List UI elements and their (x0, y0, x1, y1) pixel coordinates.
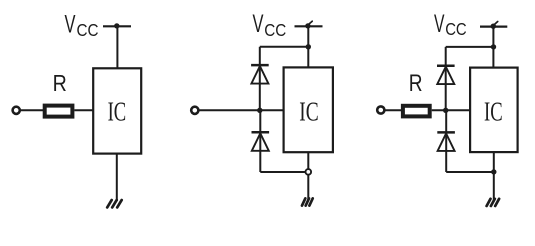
svg-text:V: V (65, 11, 76, 39)
svg-text:CC: CC (445, 19, 467, 39)
svg-text:V: V (434, 10, 445, 38)
svg-text:V: V (253, 10, 264, 38)
svg-text:R: R (53, 70, 67, 96)
svg-text:IC: IC (108, 97, 127, 127)
svg-text:CC: CC (264, 20, 286, 40)
svg-text:IC: IC (484, 97, 503, 127)
svg-text:CC: CC (77, 20, 99, 40)
svg-text:IC: IC (299, 97, 318, 127)
svg-text:R: R (409, 70, 423, 97)
